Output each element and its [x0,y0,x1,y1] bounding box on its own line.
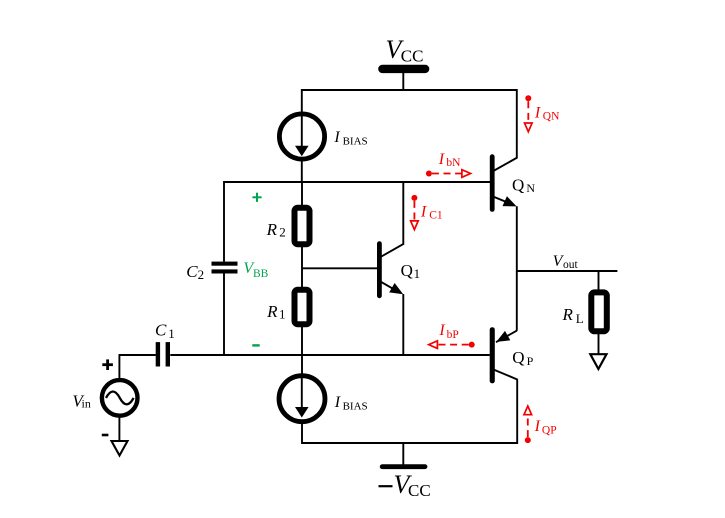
svg-text:bP: bP [447,329,459,341]
wire bottom rail [302,442,517,444]
label QP [512,348,533,368]
transistor QN collector diagonal [493,158,517,172]
wire R2 top lead [301,182,303,206]
current arrow I_bP [429,322,475,349]
wire Vin top lead [118,356,120,378]
svg-text:QP: QP [542,425,557,437]
current source I_BIAS (bottom) arrow [295,375,309,418]
capacitor C1 plates [156,342,170,366]
svg-text:BB: BB [253,268,269,280]
power symbol -VCC bar [380,464,428,469]
wire top rail [302,89,518,91]
svg-text:I: I [438,151,445,168]
svg-text:C: C [155,320,167,339]
wire RL top lead [598,271,600,290]
svg-text:CC: CC [401,47,424,66]
wire VBB bottom rail C1 to QP base (node A) [170,354,490,356]
svg-text:Q: Q [512,348,524,367]
ground symbol below Vin [112,441,128,456]
label R2 [266,220,286,239]
svg-text:L: L [576,311,584,326]
wire top rail left drop to IBIAS1 [301,89,303,114]
svg-text:1: 1 [168,326,175,341]
label C2 [186,262,204,282]
wire Q1 emitter vertical [402,294,404,355]
transistor QP emitter diagonal with arrow (into base) [496,331,517,343]
svg-text:I: I [438,322,445,339]
label Vin [72,391,90,410]
svg-text:P: P [527,354,534,368]
svg-text:1: 1 [414,266,421,281]
wire Q1 collector vertical [402,182,404,245]
transistor QN emitter diagonal with arrow [493,196,516,206]
svg-text:I: I [333,129,340,146]
label VCC [386,35,424,66]
capacitor C2 plates [212,262,238,274]
label Q1 [401,261,421,281]
resistor RL [591,292,607,331]
svg-text:in: in [82,397,91,411]
svg-text:2: 2 [198,267,205,282]
wire VCC stem [402,73,404,91]
svg-text:1: 1 [279,307,286,322]
wire R2-R1 middle node [301,247,303,288]
label C1 [155,320,175,341]
svg-text:QN: QN [543,111,560,123]
svg-text:R: R [562,305,574,324]
svg-text:R: R [266,220,278,239]
svg-text:I: I [534,418,541,435]
label R1 [266,302,285,322]
transistor QN base bar [490,154,495,212]
wire Q1 base [302,267,377,269]
source Vin sine wave [106,392,134,405]
label -VCC [379,470,431,500]
svg-text:BIAS: BIAS [343,136,368,148]
svg-text:CC: CC [408,481,431,500]
wire Vin bottom to ground [118,417,120,441]
wire IBIAS1 to VBB top rail [301,159,303,183]
svg-text:N: N [526,181,535,195]
wire C2 top lead [223,181,225,262]
wire rail to IBIAS2 [301,354,303,378]
resistor R2 [295,208,310,244]
current source I_BIAS (top) circle [279,114,324,159]
svg-text:out: out [563,259,579,271]
wire R1 bottom lead [301,327,303,357]
current arrow I_bN [426,151,471,178]
node + polarity mark (green) [252,193,261,202]
label QN [512,175,535,195]
current arrow I_QN [525,95,561,131]
svg-text:C1: C1 [429,210,443,222]
power symbol VCC bar [378,65,429,73]
svg-text:bN: bN [446,157,461,169]
label I_BIAS (bottom) [334,394,368,413]
svg-text:I: I [334,394,341,411]
transistor QP collector diagonal [494,370,518,380]
current arrow I_C1 [411,195,443,230]
wire Vin to C1 [119,354,156,356]
label VBB (green) [243,260,268,280]
transistor Q1 base bar [377,241,382,298]
wire QP collector vertical [516,379,518,444]
wire -VCC ground stem [402,443,404,465]
wire VBB top rail (node B, QN base) [224,181,490,183]
transistor QP base bar [490,327,495,383]
svg-text:R: R [266,302,278,321]
label Vout [553,253,579,271]
svg-text:Q: Q [401,261,413,280]
svg-text:2: 2 [279,224,286,239]
svg-text:BIAS: BIAS [343,401,368,413]
current source I_BIAS (bottom) circle [279,376,325,422]
plus mark at Vin [102,359,113,370]
label RL [562,305,584,326]
svg-text:C: C [186,262,198,281]
node - polarity mark (green) [252,344,259,346]
minus mark at Vin [102,434,109,437]
svg-text:I: I [420,204,427,221]
current source I_BIAS (top) arrow [295,114,309,157]
wire C2 bottom lead [223,273,225,356]
source Vin circle [102,380,138,416]
svg-text:Q: Q [512,175,524,194]
resistor R1 [295,290,310,324]
current arrow I_QP [524,406,557,443]
transistor Q1 emitter diagonal with arrow [381,282,404,295]
label I_BIAS (top) [333,129,367,148]
wire Vout horizontal [517,270,618,272]
wire output node QN emitter to QP emitter [516,206,518,330]
wire QN collector vertical [516,89,518,158]
ground symbol below RL [590,354,606,369]
transistor Q1 collector diagonal [381,244,404,257]
wire RL bottom lead [598,334,600,354]
svg-text:I: I [534,104,541,121]
wire IBIAS2 to bottom rail [301,421,303,444]
